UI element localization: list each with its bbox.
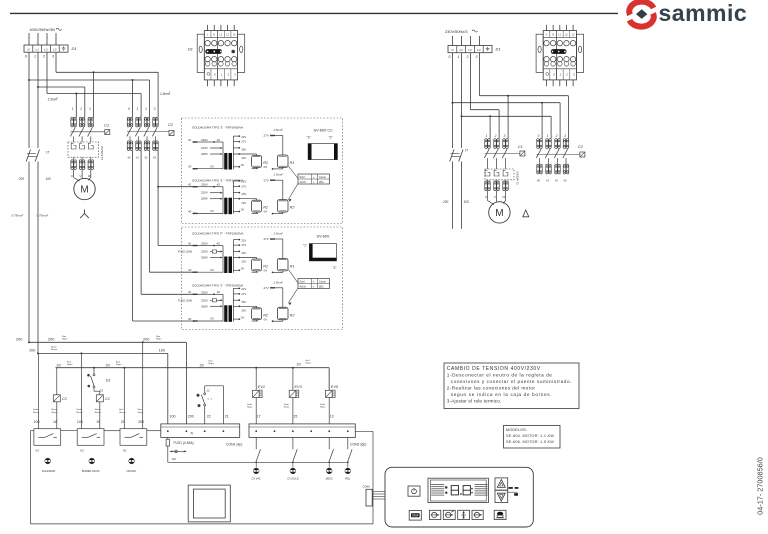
svg-text:0V: 0V [264, 210, 268, 214]
svg-text:0V: 0V [264, 269, 268, 273]
svg-text:0: 0 [449, 55, 451, 59]
svg-text:SOLENOID: SOLENOID [42, 469, 56, 473]
svg-text:2: 2 [144, 107, 147, 111]
wire L2 feeder (right) [470, 53, 472, 110]
svg-text:Azul: Azul [306, 359, 310, 362]
switch DESC [328, 437, 330, 449]
facia connector REL [345, 468, 351, 474]
svg-text:"2": "2" [333, 266, 337, 270]
svg-text:L2: L2 [468, 48, 472, 52]
svg-text:208V: 208V [201, 304, 208, 308]
note box CAMBIO DE TENSION [444, 363, 579, 409]
wire L2 drop (230V) [470, 36, 472, 46]
wire N drop [28, 33, 30, 45]
svg-text:27V: 27V [264, 178, 269, 182]
wire net 20 to K1 on/off switch [123, 368, 125, 429]
svg-text:20: 20 [200, 363, 204, 367]
svg-text:Blanco: Blanco [95, 412, 102, 414]
svg-text:Negro: Negro [247, 406, 253, 408]
block wires [207, 25, 209, 31]
svg-text:C1: C1 [518, 144, 523, 149]
svg-text:40: 40 [188, 209, 192, 213]
pointer lines to legend (box2) [288, 270, 298, 284]
button air return [472, 510, 483, 519]
svg-text:Blanco: Blanco [33, 412, 40, 414]
svg-text:40: 40 [188, 317, 192, 321]
resistor R2 (SOLDADURA TIPO '2' - TRF2/600VA) [252, 308, 262, 320]
thermal relay E1 (left) [68, 142, 99, 157]
button vacuum [430, 510, 441, 519]
sammic logo [629, 0, 747, 27]
svg-text:CAMBIO DE TENSION 400V/230V: CAMBIO DE TENSION 400V/230V [447, 366, 541, 372]
contactor C2 (right) [536, 134, 585, 183]
motor M (star) [73, 170, 75, 178]
switch K2 (BOMBA VACIO) [77, 429, 104, 446]
svg-text:15: 15 [293, 415, 297, 419]
wires to control nets 200/100 [28, 162, 30, 343]
svg-text:18: 18 [53, 420, 57, 424]
svg-text:100: 100 [170, 415, 176, 419]
svg-text:0V: 0V [264, 317, 268, 321]
power button [408, 486, 420, 496]
svg-text:20: 20 [106, 363, 110, 367]
svg-text:208V: 208V [201, 197, 208, 201]
pressure switch (vacuum) [197, 386, 224, 424]
wire N drop (230V) [452, 36, 454, 46]
svg-text:CON2 (6p): CON2 (6p) [350, 443, 366, 447]
svg-text:1: 1 [72, 107, 74, 111]
wire branch net 43 to TRF2 [157, 186, 159, 188]
svg-text:19: 19 [96, 420, 100, 424]
note box MODELOS [504, 426, 561, 449]
fuse FUS1 [166, 437, 194, 462]
svg-text:3: 3 [504, 134, 506, 138]
svg-text:3: 3 [564, 134, 566, 138]
connector block body [197, 31, 245, 80]
vacuum chamber (double square) [188, 485, 230, 522]
button STOP [409, 510, 421, 520]
svg-text:42: 42 [217, 290, 221, 294]
svg-text:Negro: Negro [320, 406, 326, 408]
svg-text:13V: 13V [241, 309, 246, 313]
connector block body [536, 31, 584, 80]
thermal relay E1 (right) [485, 169, 514, 180]
solenoid valve EV5 [328, 368, 330, 391]
svg-text:200: 200 [16, 338, 22, 342]
svg-text:220V: 220V [201, 250, 208, 254]
svg-text:STOP: STOP [412, 515, 419, 518]
dashed box SV-600 CC [182, 118, 343, 224]
svg-text:CV SOLD: CV SOLD [287, 477, 299, 481]
svg-text:15V: 15V [241, 148, 246, 152]
thermal contact E1 (control) [87, 368, 110, 393]
transformer SOLDADURA TIPO '2' - TRF2/600VA [178, 280, 295, 322]
svg-text:2: 2 [226, 72, 229, 76]
svg-text:230V: 230V [201, 242, 208, 246]
svg-text:22V: 22V [241, 287, 246, 291]
svg-text:REL: REL [345, 477, 351, 481]
svg-text:100: 100 [46, 177, 52, 181]
svg-text:K2: K2 [36, 448, 40, 452]
switch CV VAC [255, 437, 257, 449]
resistor R2 (SOLDADURA TIPO '3' - TRF2/600VA) [252, 200, 262, 212]
svg-text:Azul: Azul [119, 408, 123, 411]
svg-text:200: 200 [138, 420, 144, 424]
wire N feeder y=80 [28, 52, 30, 80]
svg-text:L1: L1 [460, 48, 464, 52]
connector CON6 to keypad [363, 485, 386, 506]
svg-text:"3": "3" [307, 136, 311, 140]
svg-text:Azul: Azul [67, 360, 71, 363]
svg-text:0: 0 [128, 107, 130, 111]
svg-text:100: 100 [159, 349, 165, 353]
svg-text:21: 21 [225, 415, 229, 419]
svg-text:Canto: Canto [319, 175, 326, 179]
svg-text:CON6: CON6 [363, 485, 371, 489]
svg-text:Negro: Negro [67, 364, 73, 366]
svg-text:41: 41 [188, 138, 192, 142]
svg-text:SV-600 CC: SV-600 CC [314, 127, 334, 132]
svg-text:220V: 220V [201, 146, 208, 150]
wire net 43 (C2 to transformers) [157, 151, 159, 246]
svg-text:0: 0 [25, 54, 27, 58]
svg-text:SE-606. MOTOR: 1.5 KW: SE-606. MOTOR: 1.5 KW [506, 440, 554, 444]
svg-text:1: 1 [137, 107, 139, 111]
star symbol [84, 210, 86, 214]
coil C2 (control) [53, 368, 67, 429]
wire L3 feeder (right) [479, 53, 481, 96]
svg-text:Negro: Negro [62, 338, 68, 340]
svg-text:C1: C1 [105, 397, 110, 401]
svg-text:segun se indica en la caja de: segun se indica en la caja de bornes. [451, 392, 552, 397]
wire net 40 (C2 to transformers) [132, 151, 134, 322]
wire L3 drop (230V) [479, 36, 481, 46]
wire L3 feeder y=72.3 [55, 52, 57, 72]
svg-text:R1: R1 [290, 161, 295, 165]
svg-text:3: 3 [89, 107, 91, 111]
wire net 42 (C2 to transformers) [149, 151, 151, 273]
panel connector SOLENOID [45, 458, 51, 464]
svg-text:Negro: Negro [156, 338, 162, 340]
facia connector CV SOLD [290, 468, 296, 474]
svg-text:1-Desconectar el neutro de la: 1-Desconectar el neutro de la regleta de [447, 372, 553, 377]
bus 200 [29, 341, 186, 343]
svg-text:230V: 230V [201, 290, 208, 294]
resistor R1 (SOLDADURA TIPO 'F' - TRF3/600VA) [252, 259, 262, 271]
svg-text:20: 20 [121, 420, 125, 424]
svg-text:100: 100 [77, 420, 83, 424]
panel connector ON/OFF [129, 458, 135, 464]
svg-text:Negro: Negro [138, 412, 144, 414]
svg-text:Blanco: Blanco [76, 412, 83, 414]
top border rule [10, 12, 618, 14]
wire N feeder (right) [452, 53, 454, 103]
connector strip CON2 (6p) [249, 424, 355, 438]
svg-text:42: 42 [217, 183, 221, 187]
svg-text:"3": "3" [329, 136, 333, 140]
svg-text:27V: 27V [264, 286, 269, 290]
svg-text:0V: 0V [211, 268, 215, 272]
wire net 100 to K2 solenoid switch [37, 353, 39, 428]
svg-text:M: M [80, 185, 88, 196]
svg-text:22V: 22V [241, 180, 246, 184]
svg-text:41: 41 [188, 241, 192, 245]
block wires [546, 25, 548, 31]
svg-text:Negro: Negro [284, 406, 290, 408]
svg-text:208V: 208V [201, 256, 208, 260]
button adjust [458, 510, 470, 519]
svg-text:230V/50Hz/3: 230V/50Hz/3 [445, 29, 468, 34]
svg-text:L3: L3 [53, 48, 57, 52]
svg-text:04-17- 2700856/0: 04-17- 2700856/0 [756, 457, 765, 515]
svg-text:42: 42 [217, 241, 221, 245]
wire net 100 to K2 vacuum switch [80, 353, 82, 428]
svg-text:17: 17 [257, 415, 261, 419]
svg-text:4↔2: 4↔2 [208, 398, 213, 400]
svg-text:SOLDADURA TIPO '3' - TRF3/600V: SOLDADURA TIPO '3' - TRF3/600VA [192, 125, 244, 129]
wire L1 feeder (right) [461, 53, 463, 117]
svg-text:23: 23 [99, 389, 104, 393]
svg-text:Negro: Negro [116, 364, 122, 366]
svg-text:BOMBA VACIO: BOMBA VACIO [82, 469, 100, 473]
svg-text:M: M [495, 208, 503, 219]
svg-text:SV-600: SV-600 [317, 234, 331, 239]
svg-text:K1: K1 [123, 448, 127, 452]
svg-text:230V: 230V [201, 183, 208, 187]
svg-text:400V/50Hz/3N: 400V/50Hz/3N [30, 27, 55, 32]
svg-text:L1: L1 [36, 48, 40, 52]
LCD display [428, 478, 488, 502]
open control wires 200/100 (right) [452, 162, 454, 229]
disconnector IT (left) [26, 80, 50, 162]
svg-text:2: 2 [79, 107, 82, 111]
svg-text:100: 100 [464, 200, 470, 204]
svg-text:13: 13 [330, 415, 334, 419]
svg-text:SOLDADURA TIPO 'F' - TRF3/600V: SOLDADURA TIPO 'F' - TRF3/600VA [192, 232, 244, 236]
svg-text:200: 200 [48, 338, 54, 342]
jumper bridge [205, 49, 222, 54]
svg-text:4x0.8: 4x0.8 [299, 284, 306, 288]
switch CV SOLD [292, 437, 294, 449]
facia connector CV VAC [253, 468, 259, 474]
svg-text:230V: 230V [201, 138, 208, 142]
set markers [508, 487, 512, 489]
svg-text:41: 41 [188, 183, 192, 187]
motor M (delta) [487, 191, 489, 201]
transformer SOLDADURA TIPO '3' - TRF3/600VA [188, 125, 294, 169]
svg-text:13V: 13V [241, 260, 246, 264]
pointer lines to legend [288, 166, 298, 179]
svg-text:Negro: Negro [209, 363, 215, 365]
relay output terminals (right) [485, 181, 491, 191]
svg-text:FUS2 (10A): FUS2 (10A) [178, 250, 192, 254]
svg-text:20: 20 [297, 363, 301, 367]
C2 output terminals [127, 141, 133, 151]
switch K2 (SOLENOID) [34, 429, 61, 446]
svg-text:4x0.8: 4x0.8 [299, 180, 306, 184]
screen symbol (box2) [303, 244, 337, 271]
svg-text:2: 2 [565, 72, 568, 76]
svg-text:DESC: DESC [326, 477, 333, 481]
svg-text:D1: D1 [496, 47, 501, 52]
svg-text:15V: 15V [241, 192, 246, 196]
svg-text:0V: 0V [211, 164, 215, 168]
button up [495, 478, 508, 490]
svg-text:43: 43 [188, 165, 192, 169]
svg-text:13V: 13V [241, 156, 246, 160]
svg-text:1: 1 [486, 134, 488, 138]
svg-text:13V: 13V [241, 201, 246, 205]
display digits 8.8 [451, 486, 470, 495]
svg-text:42: 42 [217, 138, 221, 142]
svg-text:Blanco: Blanco [51, 349, 58, 351]
svg-text:3: 3 [52, 54, 54, 58]
svg-text:Ø11: Ø11 [319, 284, 324, 288]
control keypad panel [385, 467, 533, 527]
svg-text:200: 200 [18, 177, 25, 181]
C2 output terminals (right) [537, 164, 543, 174]
svg-text:2: 2 [494, 134, 497, 138]
svg-text:2-Realizar las conexiones del: 2-Realizar las conexiones del motor [447, 385, 536, 390]
svg-text:27V: 27V [264, 134, 269, 138]
svg-text:27V: 27V [264, 237, 269, 241]
svg-text:C1: C1 [104, 123, 109, 128]
svg-text:FUS2 (10A): FUS2 (10A) [178, 298, 192, 302]
terminal strip D1 (400V) [24, 45, 68, 52]
svg-text:Negro: Negro [306, 363, 312, 365]
svg-text:0V: 0V [211, 209, 215, 213]
wire L1 drop [37, 33, 39, 45]
svg-text:1: 1 [547, 134, 549, 138]
svg-text:MODELOS:: MODELOS: [506, 428, 527, 432]
svg-text:ON/OFF: ON/OFF [126, 469, 136, 473]
svg-text:sammic: sammic [659, 0, 748, 26]
svg-text:0V: 0V [241, 163, 245, 167]
svg-text:L3: L3 [477, 48, 481, 52]
svg-text:17V: 17V [241, 292, 246, 296]
svg-text:220V: 220V [201, 191, 208, 195]
svg-text:3: 3 [154, 107, 156, 111]
contactor C1 (left) [70, 107, 109, 142]
svg-text:0: 0 [538, 134, 540, 138]
svg-text:22: 22 [207, 415, 211, 419]
svg-text:Blanco: Blanco [119, 412, 126, 414]
jumper bridge [551, 49, 567, 54]
svg-text:1: 1 [34, 54, 36, 58]
svg-text:0V: 0V [264, 165, 268, 169]
wire L1 drop (230V) [461, 36, 463, 46]
wire L2 drop [46, 33, 48, 45]
bus 20 [56, 367, 330, 369]
svg-text:Azul: Azul [209, 360, 213, 363]
legend table (box2) [298, 279, 330, 289]
delta symbol [523, 210, 529, 217]
svg-text:EV1: EV1 [258, 385, 265, 389]
solenoid valve EV3 [284, 368, 303, 424]
svg-text:0V: 0V [241, 208, 245, 212]
bus 100 [38, 352, 168, 354]
svg-text:CON1 (4p): CON1 (4p) [226, 443, 242, 447]
svg-text:0V: 0V [241, 267, 245, 271]
svg-text:20: 20 [57, 363, 61, 367]
wire net 200 to K1 on/off switch [142, 342, 144, 428]
svg-text:W: W [88, 174, 91, 178]
solenoid valve EV1 [247, 368, 265, 424]
transformer SOLDADURA TIPO '3' - TRF2/600VA [188, 173, 295, 215]
facia connector DESC [326, 468, 332, 474]
svg-text:3-Ajustar el rele termico.: 3-Ajustar el rele termico. [447, 398, 502, 403]
svg-text:1: 1 [458, 55, 460, 59]
svg-text:15V: 15V [241, 300, 246, 304]
svg-text:EV3: EV3 [295, 385, 303, 389]
wire L2 feeder y=93.5 [46, 52, 48, 93]
svg-text:SE-604. MOTOR: 1.1 KW: SE-604. MOTOR: 1.1 KW [506, 434, 554, 438]
svg-text:Canto: Canto [319, 279, 326, 283]
svg-text:Azul: Azul [116, 360, 120, 363]
svg-text:17V: 17V [241, 184, 246, 188]
svg-text:SOLDADURA TIPO '2' - TRF2/600V: SOLDADURA TIPO '2' - TRF2/600VA [192, 284, 244, 288]
screen symbol (box1) [307, 136, 338, 160]
button seal [494, 510, 506, 519]
svg-text:D1: D1 [72, 46, 77, 51]
svg-text:conexiones y conectar el puent: conexiones y conectar el puente suminist… [451, 379, 572, 384]
svg-text:2: 2 [42, 54, 45, 58]
svg-text:220V: 220V [201, 298, 208, 302]
svg-text:200: 200 [188, 415, 194, 419]
svg-text:100: 100 [34, 420, 40, 424]
svg-text:E1: E1 [106, 378, 111, 382]
button down [495, 490, 508, 502]
wire L1 feeder y=87 [37, 52, 39, 87]
svg-text:W: W [502, 195, 505, 199]
svg-text:43: 43 [188, 268, 192, 272]
svg-text:12: 12 [207, 388, 210, 392]
coil C1 (control) [94, 391, 110, 429]
svg-text:FUS1 (0.63A): FUS1 (0.63A) [174, 441, 194, 445]
svg-text:Ø11: Ø11 [319, 180, 324, 184]
legend table (box1) [298, 174, 330, 184]
disconnector IT (right) [450, 103, 469, 162]
terminal strip D1 (230V) [448, 46, 492, 53]
svg-text:0V: 0V [211, 317, 215, 321]
dashed box SV-600 [182, 227, 343, 330]
svg-text:0V: 0V [241, 315, 245, 319]
svg-text:EV5: EV5 [331, 385, 339, 389]
svg-text:200: 200 [143, 338, 149, 342]
switch REL [347, 437, 349, 449]
svg-text:208V: 208V [201, 152, 208, 156]
svg-text:L2: L2 [44, 48, 48, 52]
svg-text:D1: D1 [188, 46, 193, 51]
svg-text:Blanco: Blanco [52, 412, 59, 414]
enclosure outline [31, 431, 374, 524]
svg-text:15V: 15V [241, 251, 246, 255]
svg-text:2: 2 [466, 55, 469, 59]
resistor R1 (SOLDADURA TIPO '3' - TRF3/600VA) [252, 156, 262, 168]
svg-text:17V: 17V [241, 243, 246, 247]
svg-text:Sold: Sold [299, 175, 305, 179]
svg-text:17V: 17V [241, 140, 246, 144]
wire net 41 (C2 to transformers) [140, 151, 142, 295]
svg-text:E1 4A/230V: E1 4A/230V [516, 171, 519, 185]
panel connector BOMBA VACIO [89, 458, 95, 464]
contactor C2 (left) [127, 107, 174, 159]
svg-text:2: 2 [555, 134, 558, 138]
transformer SOLDADURA TIPO 'F' - TRF3/600VA [178, 232, 294, 274]
svg-text:100: 100 [29, 349, 35, 353]
relay output terminals [71, 160, 77, 170]
wire L3 drop [55, 33, 57, 45]
